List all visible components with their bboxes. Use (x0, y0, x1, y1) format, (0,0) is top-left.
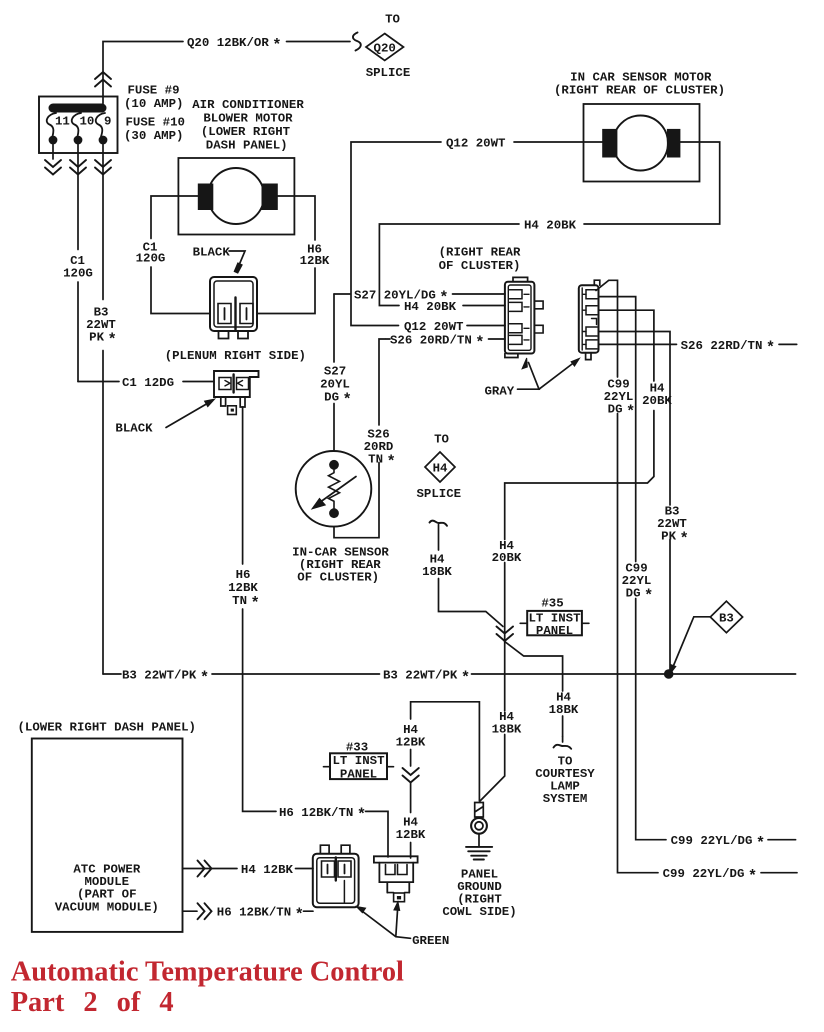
chevron pin11 (down) (45, 160, 61, 175)
chevron pin10 (down) (70, 160, 86, 175)
svg-text:TN*: TN* (368, 453, 396, 471)
junction dot B3 (664, 669, 674, 679)
svg-text:(30 AMP): (30 AMP) (124, 129, 184, 143)
inline connector chevron (up) on Q20 drop (95, 72, 111, 87)
sensor terminal dots (329, 460, 339, 470)
blower motor box (178, 158, 294, 235)
svg-text:Q20: Q20 (374, 41, 396, 55)
svg-text:Part 2 of 4: Part 2 of 4 (11, 987, 174, 1018)
wire S27 20YL/DG row (334, 293, 505, 295)
in-car sensor motor brush left (602, 129, 617, 158)
blower motor brush left (198, 184, 214, 211)
svg-text:COWL SIDE): COWL SIDE) (442, 905, 516, 919)
svg-text:20YL: 20YL (320, 377, 350, 391)
svg-text:H6 12BK/TN*: H6 12BK/TN* (279, 806, 366, 824)
wire H6 12BK/TN vertical from plenum (243, 407, 388, 857)
wire pin10 C1 120G vertical (77, 144, 79, 382)
wire C99 #2 from pin1 (599, 297, 796, 840)
chevron pin9 (down) (95, 160, 111, 175)
svg-text:DASH PANEL): DASH PANEL) (206, 139, 288, 153)
gray connector contacts (510, 290, 523, 345)
svg-text:12BK: 12BK (228, 581, 258, 595)
blower motor circle (208, 168, 264, 224)
wire blower right H6 12BK (258, 196, 316, 314)
svg-text:Q12 20WT: Q12 20WT (446, 136, 506, 150)
wire S26 20RD/TN row (379, 339, 505, 425)
wire B3 22WT/PK from pin3 (599, 332, 671, 675)
svg-text:H4 20BK: H4 20BK (404, 300, 457, 314)
svg-text:IN CAR SENSOR MOTOR: IN CAR SENSOR MOTOR (570, 71, 712, 85)
svg-text:10: 10 (80, 115, 95, 129)
in-car sensor circle (296, 451, 372, 527)
svg-text:12BK: 12BK (300, 254, 330, 268)
svg-text:VACUUM MODULE): VACUUM MODULE) (55, 900, 159, 914)
wire S26 22RD/TN from pin4 (599, 343, 797, 345)
plenum connector foot w/ dot (228, 406, 237, 415)
connector B pins (386, 865, 408, 875)
svg-text:S27: S27 (324, 364, 346, 378)
wire module H4 12BK output (183, 868, 314, 870)
in-car sensor motor circle (613, 116, 668, 171)
fuse pin terminal dots (49, 136, 58, 145)
svg-text:18BK: 18BK (549, 703, 579, 717)
svg-text:H4 12BK: H4 12BK (241, 863, 294, 877)
gray connector right hooks (534, 301, 543, 333)
half connector below H4 diamond (430, 521, 448, 526)
svg-text:PANEL: PANEL (536, 624, 573, 638)
svg-text:SPLICE: SPLICE (416, 487, 461, 501)
ATC power module box (32, 739, 183, 932)
splice diamond Q20 (366, 34, 404, 61)
wire blower left C1 120G (151, 196, 210, 314)
gray connector (left) body (505, 282, 535, 354)
connector B foot w/ dot (387, 892, 409, 894)
splice half symbol before Q20 diamond (353, 33, 361, 51)
fuse block F9/F10 outline (39, 97, 118, 154)
wire S26 vertical to sensor bottom (334, 463, 379, 538)
svg-text:12BK: 12BK (396, 828, 426, 842)
svg-text:20BK: 20BK (642, 394, 672, 408)
svg-text:B3: B3 (719, 611, 734, 625)
svg-text:(RIGHT REAR OF CLUSTER): (RIGHT REAR OF CLUSTER) (554, 84, 725, 98)
wire module H6 12BK/TN output (183, 910, 314, 912)
svg-text:20BK: 20BK (492, 551, 522, 565)
wire branch to courtesy lamp (505, 642, 563, 737)
svg-text:H4: H4 (433, 461, 448, 475)
#33 LT INST PANEL box (330, 753, 387, 779)
svg-text:AIR CONDITIONER: AIR CONDITIONER (192, 98, 304, 112)
wire H4 20BK top run (379, 142, 719, 306)
svg-text:11: 11 (55, 115, 70, 129)
splice diamond B3 (710, 601, 742, 633)
svg-text:H4 20BK: H4 20BK (524, 218, 577, 232)
svg-text:TO: TO (434, 433, 449, 447)
svg-text:SYSTEM: SYSTEM (543, 792, 588, 806)
wire Q12 20WT top run (351, 142, 602, 326)
connector B top bar (374, 856, 418, 862)
svg-text:12BK: 12BK (396, 735, 426, 749)
svg-text:GRAY: GRAY (485, 384, 515, 398)
svg-text:#35: #35 (541, 596, 563, 610)
svg-text:Q12 20WT: Q12 20WT (404, 320, 464, 334)
plenum connector outline (214, 371, 259, 397)
arrow leaders GREEN (360, 906, 411, 938)
svg-text:C1 12DG: C1 12DG (122, 376, 174, 390)
right connector contacts (586, 290, 597, 349)
fuse element pin 9 (96, 113, 105, 137)
blower connector feet (219, 331, 249, 339)
svg-text:FUSE #10: FUSE #10 (126, 115, 186, 129)
wire pin9 B3 22WT vertical (102, 144, 104, 674)
svg-text:SPLICE: SPLICE (366, 66, 411, 80)
connector A top tabs (320, 845, 350, 854)
svg-text:18BK: 18BK (492, 722, 522, 736)
svg-text:BLACK: BLACK (193, 246, 231, 260)
wire S27 vertical to sensor (333, 294, 335, 460)
half connector courtesy lamp (562, 737, 564, 743)
connector B body (379, 863, 413, 893)
svg-text:B3 22WT/PK*: B3 22WT/PK* (122, 668, 209, 686)
right connector top tab (594, 280, 600, 285)
gray connector bottom tab (505, 354, 518, 358)
fuse bus bar (49, 104, 107, 113)
chevron on H4 12BK (down) (403, 768, 419, 783)
svg-text:S26 20RD/TN*: S26 20RD/TN* (390, 333, 485, 351)
wire H4 12BK vertical to connector B (410, 750, 412, 859)
svg-text:120G: 120G (136, 252, 166, 266)
svg-text:9: 9 (104, 115, 111, 129)
plenum connector mating contacts (219, 378, 249, 390)
ground stem (478, 834, 480, 847)
svg-text:C99 22YL/DG*: C99 22YL/DG* (671, 834, 766, 852)
right connector body (579, 285, 599, 353)
svg-text:OF CLUSTER): OF CLUSTER) (439, 259, 521, 273)
ground lug barrel (475, 803, 484, 818)
fuse element pin 11 (47, 113, 56, 137)
thermistor arrow (321, 477, 356, 502)
svg-text:(10 AMP): (10 AMP) (124, 97, 184, 111)
svg-text:OF CLUSTER): OF CLUSTER) (297, 571, 379, 585)
svg-text:(LOWER RIGHT DASH PANEL): (LOWER RIGHT DASH PANEL) (18, 721, 196, 735)
svg-text:LT INST: LT INST (332, 754, 385, 768)
svg-text:BLOWER MOTOR: BLOWER MOTOR (203, 112, 293, 126)
wire H4 18BK to splice chevron (439, 579, 504, 627)
blower connector outline (210, 277, 257, 331)
wire B3 22WT/PK horizontal bus (103, 673, 796, 675)
svg-text:TO: TO (385, 13, 400, 27)
connector A body (313, 854, 359, 908)
svg-text:18BK: 18BK (422, 565, 452, 579)
svg-text:BLACK: BLACK (115, 422, 153, 436)
blower motor brush right (262, 184, 278, 211)
wire Q20 12BK/OR top run (103, 42, 350, 104)
svg-text:(PLENUM RIGHT SIDE): (PLENUM RIGHT SIDE) (165, 349, 306, 363)
plenum connector legs (221, 397, 245, 407)
arrow leader BLACK to plenum connector (166, 403, 209, 428)
fuse element pin 10 (72, 113, 81, 137)
svg-text:(LOWER RIGHT: (LOWER RIGHT (201, 125, 291, 139)
svg-text:PANEL: PANEL (340, 768, 377, 782)
arrow leader BLACK to blower connector (229, 251, 245, 268)
ground lug ring (471, 818, 487, 834)
splice diamond H4 (425, 452, 455, 482)
svg-text:H6 12BK/TN*: H6 12BK/TN* (217, 906, 304, 924)
svg-text:FUSE #9: FUSE #9 (128, 84, 180, 98)
wire C1 12DG horizontal to plenum connector (78, 381, 214, 383)
#35 LT INST PANEL box (527, 611, 582, 635)
right connector bottom leg (586, 353, 591, 360)
connector A inner lead (343, 881, 345, 904)
in-car sensor motor box (584, 104, 700, 182)
arrow leader B3 diamond to junction (673, 617, 711, 668)
splice chevron on H4 20BK wire (down) (497, 627, 514, 642)
svg-text:PK*: PK* (89, 331, 117, 349)
wire bridge H4 12BK to ground (411, 702, 480, 801)
svg-text:#33: #33 (346, 741, 368, 755)
in-car sensor motor brush right (667, 129, 681, 158)
chevrons module output 1 (198, 861, 212, 877)
svg-text:DG*: DG* (626, 587, 654, 605)
arrow leaders GRAY to both connectors (518, 361, 577, 389)
svg-text:PK*: PK* (661, 530, 689, 548)
svg-text:H6: H6 (236, 568, 251, 582)
connector A mating contacts (322, 861, 352, 877)
svg-text:GREEN: GREEN (412, 934, 449, 948)
svg-text:(RIGHT REAR: (RIGHT REAR (439, 246, 521, 260)
wire C99 from connector top tab (diagonal) (596, 280, 797, 872)
svg-text:Automatic Temperature Control: Automatic Temperature Control (11, 957, 404, 988)
svg-text:DG*: DG* (324, 390, 352, 408)
wire H4 20BK from pin2 (480, 310, 654, 801)
gray connector top tab (513, 277, 528, 281)
blower connector mating contacts (218, 304, 253, 324)
svg-text:B3 22WT/PK*: B3 22WT/PK* (383, 668, 470, 686)
wire pin11 stub (52, 144, 54, 159)
svg-text:Q20 12BK/OR*: Q20 12BK/OR* (187, 36, 282, 54)
svg-text:S26 22RD/TN*: S26 22RD/TN* (681, 339, 776, 357)
svg-text:120G: 120G (63, 267, 93, 281)
svg-text:C99 22YL/DG*: C99 22YL/DG* (663, 867, 758, 885)
svg-text:DG*: DG* (608, 403, 636, 421)
chevrons module output 2 (198, 903, 212, 919)
svg-text:TN*: TN* (232, 594, 260, 612)
thermistor zigzag (329, 470, 340, 509)
ground symbol (466, 847, 492, 860)
